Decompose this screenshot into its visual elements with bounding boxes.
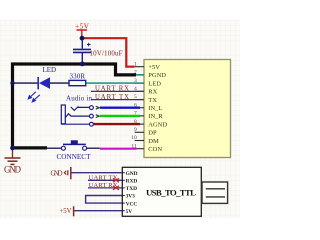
svg-text:PGND: PGND	[148, 72, 166, 79]
svg-text:RXD: RXD	[126, 179, 138, 185]
svg-text:RX: RX	[148, 89, 157, 96]
svg-text:IN_R: IN_R	[148, 113, 163, 120]
svg-text:IN_L: IN_L	[148, 105, 162, 112]
svg-text:Audio in: Audio in	[66, 94, 93, 102]
svg-text:GND: GND	[51, 171, 63, 178]
svg-text:CONNECT: CONNECT	[57, 153, 92, 161]
svg-text:5V: 5V	[126, 209, 133, 215]
svg-text:+5V: +5V	[60, 208, 72, 215]
svg-text:TX: TX	[148, 97, 157, 104]
svg-text:VCC: VCC	[126, 201, 138, 207]
svg-text:330R: 330R	[70, 73, 86, 81]
svg-text:DP: DP	[148, 130, 157, 137]
svg-text:GND: GND	[126, 171, 138, 177]
svg-text:USB_TO_TTL: USB_TO_TTL	[146, 187, 196, 197]
svg-text:9: 9	[134, 127, 137, 133]
svg-text:LED: LED	[43, 66, 57, 74]
svg-text:+5V: +5V	[75, 21, 90, 30]
svg-text:DM: DM	[148, 138, 159, 145]
svg-text:AGND: AGND	[148, 121, 167, 128]
svg-text:GND: GND	[4, 165, 22, 175]
svg-text:TXD: TXD	[126, 186, 137, 192]
svg-text:CON: CON	[148, 146, 162, 153]
svg-text:+5V: +5V	[148, 64, 160, 71]
svg-text:10: 10	[131, 135, 137, 141]
svg-text:LED: LED	[148, 80, 161, 87]
svg-text:10V/100uF: 10V/100uF	[90, 50, 123, 58]
svg-text:3V3: 3V3	[126, 194, 136, 200]
